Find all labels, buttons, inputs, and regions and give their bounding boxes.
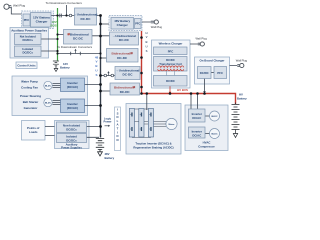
svg-text:Loads: Loads [29,130,38,134]
svg-text:DC-DC: DC-DC [81,17,92,21]
svg-text:PFC: PFC [24,18,30,22]
svg-text:Auxiliary Power Supplies: Auxiliary Power Supplies [11,28,47,32]
svg-text:DC/AC: DC/AC [192,116,201,120]
svg-text:BLDC: BLDC [45,86,51,88]
svg-text:BLDC: BLDC [211,116,217,118]
svg-text:Battery: Battery [105,156,115,160]
svg-text:U: U [95,69,97,73]
svg-text:Battery: Battery [60,65,70,69]
svg-text:Water Pump: Water Pump [21,79,38,83]
svg-text:Control Units: Control Units [17,63,36,67]
svg-text:Charger: Charger [117,23,129,27]
svg-text:To Downstream Converters: To Downstream Converters [57,45,93,49]
svg-text:Compressor: Compressor [198,144,215,148]
svg-text:PFC: PFC [135,22,140,26]
svg-text:(DC/AC): (DC/AC) [67,106,78,110]
svg-text:V: V [95,60,97,64]
svg-text:Power Steering: Power Steering [20,94,41,98]
svg-text:DC-DC: DC-DC [120,90,131,94]
svg-text:Wall Plug: Wall Plug [13,3,25,7]
svg-text:DC-DC: DC-DC [117,56,128,60]
svg-text:Belt Starter: Belt Starter [23,100,39,104]
svg-text:S: S [146,49,148,53]
svg-text:Wall Plug: Wall Plug [236,59,248,63]
svg-text:DC/DC: DC/DC [200,71,209,75]
svg-text:B: B [145,40,147,44]
svg-text:U: U [145,45,147,49]
svg-text:PFC: PFC [168,49,174,53]
svg-text:Bidirectional⇄: Bidirectional⇄ [112,50,134,55]
svg-text:DC/DC: DC/DC [166,79,175,83]
svg-text:DC-DC: DC-DC [119,38,130,42]
svg-text:(DC/AC): (DC/AC) [67,85,78,89]
svg-text:DC-DC: DC-DC [73,37,84,41]
svg-text:HV BUS: HV BUS [177,88,188,92]
svg-text:Power Supplies: Power Supplies [61,146,82,150]
svg-text:Motor: Motor [168,123,174,126]
svg-text:DC/DCs: DC/DCs [22,51,33,55]
svg-text:Bidirectional⇄: Bidirectional⇄ [114,85,136,90]
svg-text:BUS: BUS [50,24,56,28]
svg-text:Regenerative Braking (AC/DC): Regenerative Braking (AC/DC) [133,146,173,150]
svg-text:PFC: PFC [217,71,223,75]
svg-text:S: S [95,73,97,77]
svg-text:DC/AC: DC/AC [192,133,201,137]
svg-text:Cooling Fan: Cooling Fan [21,85,38,89]
svg-text:Charger: Charger [36,20,49,24]
svg-text:Generator: Generator [24,106,39,110]
svg-text:BLDC: BLDC [211,134,217,136]
svg-text:Transformer Coil: Transformer Coil [159,62,182,66]
svg-text:DC/DCs: DC/DCs [22,38,33,42]
svg-text:To Downstream Converters: To Downstream Converters [46,1,83,5]
svg-text:DC-DC: DC-DC [123,73,134,77]
svg-text:V: V [146,35,148,39]
svg-text:Battery: Battery [237,96,247,100]
svg-text:N: N [116,138,118,142]
svg-text:Wireless Charger: Wireless Charger [159,42,184,46]
svg-text:Wall Plug: Wall Plug [151,25,163,29]
svg-text:Power: Power [103,120,111,124]
svg-text:Wall Plug: Wall Plug [196,37,208,41]
svg-text:On Board Charger: On Board Charger [199,59,225,63]
svg-text:DC/DCs: DC/DCs [66,127,77,131]
svg-text:BLDC: BLDC [45,103,51,105]
